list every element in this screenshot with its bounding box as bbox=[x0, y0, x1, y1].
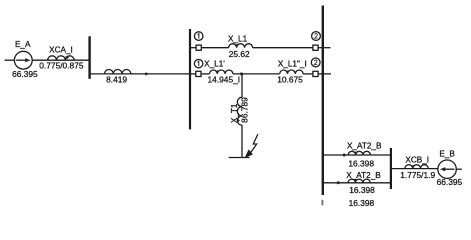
wire junction down to X_T1 bbox=[241, 74, 243, 98]
marker triangle X_L1' bbox=[215, 71, 219, 74]
svg-text:66.395: 66.395 bbox=[12, 69, 38, 79]
faded bus B lower stub bbox=[321, 200, 323, 205]
reactor X_AT2_B (1) bbox=[348, 151, 370, 155]
reactor 8.419 bbox=[105, 70, 131, 74]
svg-text:XCB_I: XCB_I bbox=[405, 156, 429, 165]
wire bus B to AT2 branch 2 bbox=[323, 182, 391, 184]
marker triangle X_T1 bbox=[237, 118, 240, 122]
svg-text:E_A: E_A bbox=[15, 40, 31, 49]
svg-text:X_T1: X_T1 bbox=[230, 103, 239, 123]
wire bus M to L1' breaker bbox=[190, 73, 196, 75]
junction node to X_T1 bbox=[240, 72, 243, 75]
reactor X_AT2_B (2) bbox=[348, 179, 370, 183]
bus B bbox=[322, 6, 324, 196]
svg-text:10.675: 10.675 bbox=[277, 74, 303, 84]
terminal circle 2 (L1 right) bbox=[312, 32, 321, 41]
svg-text:X_L1': X_L1' bbox=[204, 60, 225, 69]
svg-text:86.789: 86.789 bbox=[240, 97, 250, 123]
svg-text:25.62: 25.62 bbox=[229, 49, 250, 59]
svg-text:E_B: E_B bbox=[439, 149, 455, 158]
node dot on 8.419 line bbox=[145, 73, 148, 76]
wire E_A to bus A bbox=[32, 59, 89, 61]
bus A bbox=[88, 36, 90, 79]
svg-text:16.398: 16.398 bbox=[349, 185, 375, 195]
svg-text:8.419: 8.419 bbox=[106, 75, 127, 85]
source E_B bbox=[438, 160, 456, 178]
wire L1'' right bbox=[303, 73, 313, 75]
reactor X_L1' bbox=[210, 70, 233, 74]
svg-text:16.398: 16.398 bbox=[349, 198, 375, 208]
marker triangle XCA_I bbox=[65, 57, 70, 60]
marker triangle X_L1 bbox=[235, 44, 239, 47]
breaker square L1' left bbox=[196, 71, 201, 76]
terminal circle 1 (L1 left) bbox=[194, 32, 203, 41]
svg-text:0.775/0.875: 0.775/0.875 bbox=[39, 60, 84, 70]
source E_A bbox=[14, 51, 32, 69]
reactor XCB_I bbox=[405, 165, 428, 169]
wire L1 right bbox=[253, 47, 313, 49]
fault terminal line bbox=[229, 157, 250, 159]
reactor X_L1 bbox=[229, 44, 253, 48]
wire bus B to AT2 branch 1 bbox=[323, 154, 391, 156]
terminal circle 1 (L1' left) bbox=[194, 59, 202, 67]
wire L1 to bus B with stub bbox=[318, 47, 330, 49]
wire L1 left bbox=[201, 47, 228, 49]
wire L1' left bbox=[201, 73, 210, 75]
wire bus M to L1 breaker bbox=[190, 47, 196, 49]
svg-text:X_L1: X_L1 bbox=[228, 34, 248, 43]
svg-text:16.398: 16.398 bbox=[348, 158, 374, 168]
marker triangle XCB_I bbox=[411, 165, 415, 168]
reactor X_T1 (vertical) bbox=[237, 97, 242, 125]
reactor X_L1''_I bbox=[280, 70, 303, 74]
node dot AT2 branch 1 bbox=[343, 154, 346, 157]
bus C (short) bbox=[390, 148, 392, 189]
node dot AT2 branch 2 bbox=[337, 181, 340, 184]
breaker square L1 right bbox=[313, 45, 318, 50]
reactor XCA_I bbox=[48, 56, 74, 60]
svg-text:X_L1"_I: X_L1"_I bbox=[278, 60, 307, 69]
wire stub right of E_B bbox=[456, 168, 462, 170]
wire X_T1 down to fault bbox=[241, 125, 243, 157]
svg-text:1.775/1.9: 1.775/1.9 bbox=[400, 170, 435, 180]
wire L1' middle bbox=[233, 73, 280, 75]
wire L1'' to bus B with stub bbox=[318, 73, 331, 75]
wire bus A to bus M (line with 8.419) bbox=[90, 73, 190, 75]
marker triangle X_AT2_B (1) bbox=[353, 152, 357, 155]
marker triangle X_AT2_B (2) bbox=[353, 179, 357, 182]
svg-text:X_AT2_B: X_AT2_B bbox=[346, 171, 381, 180]
terminal circle 2 (L1'' right) bbox=[311, 58, 320, 67]
svg-text:14.945_I: 14.945_I bbox=[207, 74, 240, 84]
wire bus C to E_B bbox=[391, 168, 438, 170]
wire stub left of E_A bbox=[5, 59, 15, 61]
marker triangle X_L1''_I bbox=[285, 71, 289, 74]
fault lightning bolt bbox=[245, 134, 258, 158]
svg-text:X_AT2_B: X_AT2_B bbox=[347, 142, 382, 151]
breaker square L1 left bbox=[196, 45, 201, 50]
breaker square L1'' right bbox=[313, 71, 318, 76]
svg-text:66.395: 66.395 bbox=[437, 177, 463, 187]
bus M bbox=[189, 29, 191, 129]
svg-text:XCA_I: XCA_I bbox=[49, 46, 73, 55]
